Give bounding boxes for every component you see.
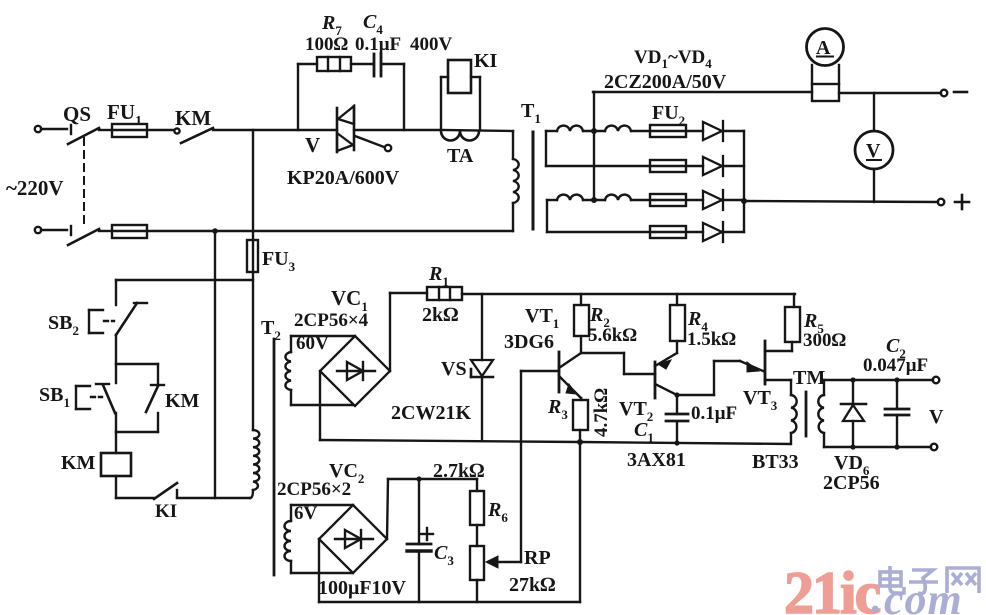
svg-text:0.047μF: 0.047μF	[863, 355, 928, 376]
svg-text:com: com	[884, 575, 963, 615]
svg-text:TA: TA	[447, 145, 474, 167]
svg-text:2CP56×4: 2CP56×4	[294, 310, 369, 331]
svg-text:100Ω: 100Ω	[305, 34, 349, 55]
svg-text:BT33: BT33	[752, 451, 799, 473]
svg-text:6V: 6V	[294, 503, 318, 524]
svg-text:1.5kΩ: 1.5kΩ	[687, 329, 736, 350]
svg-text:4.7kΩ: 4.7kΩ	[591, 388, 612, 437]
svg-text:VD1~VD4: VD1~VD4	[634, 47, 712, 71]
svg-text:QS: QS	[63, 102, 91, 126]
svg-text:2.7kΩ: 2.7kΩ	[433, 460, 484, 482]
svg-text:0.1μF: 0.1μF	[691, 403, 737, 424]
svg-text:2CZ200A/50V: 2CZ200A/50V	[604, 71, 727, 93]
svg-text:100μF10V: 100μF10V	[318, 577, 407, 599]
svg-text:2kΩ: 2kΩ	[422, 304, 458, 326]
svg-text:V: V	[305, 133, 320, 157]
svg-text:3DG6: 3DG6	[504, 331, 554, 353]
svg-text:KI: KI	[155, 501, 177, 522]
svg-text:KM: KM	[61, 452, 96, 474]
svg-text:TM: TM	[793, 367, 825, 389]
svg-text:400V: 400V	[410, 34, 453, 55]
svg-text:2CP56: 2CP56	[823, 472, 880, 494]
svg-text:300Ω: 300Ω	[803, 330, 847, 351]
svg-text:27kΩ: 27kΩ	[509, 574, 555, 596]
svg-text:2CP56×2: 2CP56×2	[277, 479, 351, 500]
svg-text:VS: VS	[441, 358, 467, 380]
svg-text:0.1μF: 0.1μF	[355, 34, 401, 55]
svg-text:KM: KM	[175, 106, 211, 130]
svg-text:RP: RP	[524, 547, 551, 569]
svg-text:21ic: 21ic	[784, 560, 881, 615]
svg-text:V: V	[866, 140, 881, 162]
svg-text:KP20A/600V: KP20A/600V	[287, 167, 400, 189]
svg-text:2CW21K: 2CW21K	[391, 402, 471, 424]
svg-text:KI: KI	[474, 50, 498, 72]
svg-text:~220V: ~220V	[6, 176, 64, 200]
svg-text:V: V	[929, 406, 944, 428]
svg-text:5.6kΩ: 5.6kΩ	[588, 325, 637, 346]
svg-text:KM: KM	[165, 390, 200, 412]
svg-text:60V: 60V	[296, 333, 329, 354]
svg-text:3AX81: 3AX81	[627, 449, 686, 471]
